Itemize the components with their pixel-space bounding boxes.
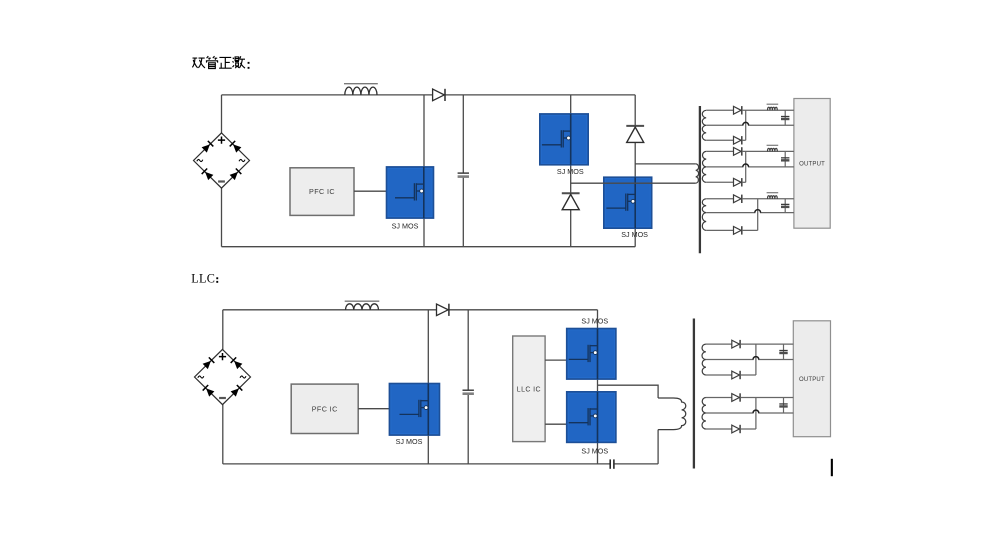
svg-text:SJ MOS: SJ MOS xyxy=(581,447,608,456)
wire LLC outB freewheel vertical xyxy=(755,398,757,430)
wire half-bridge vertical xyxy=(597,310,599,464)
filter inductor forward out1 L xyxy=(767,104,779,110)
wire forward out3 bottom lead xyxy=(706,229,733,231)
wire PFC MOSFET vertical (LLC) xyxy=(427,310,429,464)
resonant capacitor Cr xyxy=(610,459,614,468)
wire bridge bottom connector (LLC) xyxy=(222,404,224,464)
wire bridge top connector (LLC) xyxy=(222,310,224,350)
wire forward out1 top lead xyxy=(706,109,733,111)
wire LLC outB bottom lead xyxy=(706,428,732,430)
wire LLC outB top lead xyxy=(706,397,732,399)
IC box LLC IC xyxy=(513,336,545,442)
transformer T2 primary / resonant inductor winding xyxy=(658,398,686,430)
svg-text:PFC IC: PFC IC xyxy=(312,404,338,413)
MOSFET Q6 LLC low-side (SJ MOS) xyxy=(567,392,616,443)
diode LLC outB freewheel diode xyxy=(732,425,740,433)
wire bridge top connector xyxy=(221,95,223,133)
wire bridge bottom connector xyxy=(221,188,223,247)
winding forward out2 secondary xyxy=(702,151,706,182)
wire forward out1 freewheel vertical xyxy=(745,110,747,140)
inductor L1 (PFC boost) xyxy=(344,84,378,95)
svg-text:OUTPUT: OUTPUT xyxy=(799,377,825,383)
winding forward out1 secondary xyxy=(702,110,706,140)
wire LLC outB return (center tap) with hop xyxy=(706,410,793,413)
wire LLC outB rail after rectifier xyxy=(740,397,793,399)
svg-text:SJ MOS: SJ MOS xyxy=(392,222,419,231)
wire LLC outA top lead xyxy=(706,343,732,345)
winding LLC outA secondary xyxy=(702,344,706,375)
wire forward out3 freewheel connector xyxy=(742,229,758,231)
title 双管正激： (two-transistor forward) xyxy=(192,56,245,68)
filter inductor forward out3 L xyxy=(767,193,779,199)
transformer T1 core xyxy=(699,106,701,253)
wire forward out1 freewheel connector xyxy=(742,139,746,141)
wire LLC outA rail after rectifier xyxy=(740,343,793,345)
svg-text:LLC IC: LLC IC xyxy=(517,386,541,393)
winding forward out3 secondary xyxy=(702,199,706,231)
bulk capacitor C2 xyxy=(463,310,474,464)
svg-text:SJ MOS: SJ MOS xyxy=(557,167,584,176)
diode LLC outA freewheel diode xyxy=(732,371,740,379)
text cursor artifact xyxy=(831,459,833,476)
diode forward out1 rectifier xyxy=(734,106,742,114)
bridge rectifier BR2 xyxy=(195,349,251,404)
wire forward out3 return (center tap) with hop xyxy=(706,210,794,213)
wire LLC IC to high-side gate xyxy=(545,359,568,361)
MOSFET Q2 forward high-side (SJ MOS) xyxy=(540,114,588,165)
winding LLC outB secondary xyxy=(702,398,706,430)
svg-text:SJ MOS: SJ MOS xyxy=(621,230,648,239)
wire LLC outB freewheel connector xyxy=(740,428,756,430)
diode D4 (boost LLC) xyxy=(437,304,449,316)
diode D1 (boost) xyxy=(433,89,445,101)
wire forward out2 return (center tap) with hop xyxy=(706,164,794,167)
MOSFET Q4 PFC LLC (SJ MOS) xyxy=(389,384,439,436)
wire half-bridge midpoint to resonant tank xyxy=(598,385,659,398)
wire forward out1 return (center tap) with hop xyxy=(706,122,794,125)
wire primary top lead xyxy=(635,163,696,165)
wire LLC outA bottom lead xyxy=(706,374,732,376)
wire LLC outA freewheel vertical xyxy=(755,344,757,375)
wire forward out3 freewheel vertical xyxy=(757,199,759,231)
wire forward out2 top lead xyxy=(706,150,733,152)
inductor L2 (PFC boost) xyxy=(345,301,380,310)
filter inductor forward out2 L xyxy=(767,145,779,151)
output capacitor LLC outA C xyxy=(779,344,787,359)
wire LLC outA freewheel connector xyxy=(740,374,756,376)
bulk capacitor C1 xyxy=(458,95,469,247)
transformer T1 primary winding xyxy=(696,164,699,183)
wire top bus (LLC) xyxy=(223,309,598,311)
bridge rectifier BR1 xyxy=(194,133,250,188)
wire PFC MOSFET drain/source vertical xyxy=(423,95,425,247)
MOSFET Q5 LLC high-side (SJ MOS) xyxy=(567,329,616,380)
wire forward out2 freewheel connector xyxy=(742,181,746,183)
wire forward out2 rail after rectifier xyxy=(742,150,794,152)
output capacitor forward out3 C xyxy=(781,199,789,213)
diode forward out3 freewheel diode xyxy=(734,226,742,234)
diode forward out2 rectifier xyxy=(734,147,742,155)
diode forward out2 freewheel diode xyxy=(734,178,742,186)
diode forward out3 rectifier xyxy=(734,195,742,203)
svg-text:OUTPUT: OUTPUT xyxy=(799,162,825,168)
wire bottom bus (LLC) right of resonant cap xyxy=(615,463,659,465)
wire forward out3 rail after rectifier xyxy=(742,198,794,200)
wire bottom bus (forward) xyxy=(222,246,636,248)
output capacitor forward out1 C xyxy=(781,110,789,125)
output capacitor LLC outB C xyxy=(779,398,787,414)
wire forward right vertical xyxy=(634,95,636,247)
MOSFET Q1 PFC (SJ MOS) xyxy=(387,167,434,218)
wire primary bottom lead (crosses Q3) xyxy=(571,182,696,184)
svg-text:PFC IC: PFC IC xyxy=(309,187,335,196)
diode D2 (clamp upper) xyxy=(626,126,644,142)
wire bottom bus (LLC) left of resonant cap xyxy=(223,463,610,465)
wire forward out3 top lead xyxy=(706,198,733,200)
diode LLC outA rectifier xyxy=(732,340,740,348)
IC box OUTPUT (LLC) xyxy=(793,321,830,437)
wire forward out2 freewheel vertical xyxy=(745,151,747,182)
output capacitor forward out2 C xyxy=(781,151,789,167)
wire forward high-side vertical xyxy=(570,95,572,247)
wire forward out1 bottom lead xyxy=(706,139,733,141)
transformer T2 core xyxy=(693,319,695,469)
wire PFC gate xyxy=(354,190,387,192)
wire LLC outA return (center tap) with hop xyxy=(706,357,793,360)
svg-text:SJ MOS: SJ MOS xyxy=(396,437,423,446)
wire forward out1 rail after rectifier xyxy=(742,109,794,111)
diode LLC outB rectifier xyxy=(732,393,740,401)
wire PFC gate (LLC) xyxy=(358,408,389,410)
wire primary bottom to resonant cap xyxy=(657,430,659,464)
IC box PFC IC (LLC) xyxy=(291,384,358,433)
MOSFET Q3 forward low-side (SJ MOS) xyxy=(604,177,652,228)
IC box PFC IC (forward) xyxy=(290,168,354,216)
diode forward out1 freewheel diode xyxy=(734,136,742,144)
wire forward out2 bottom lead xyxy=(706,181,733,183)
IC box OUTPUT (forward) xyxy=(794,99,830,229)
wire LLC IC to low-side gate xyxy=(545,423,568,425)
svg-text:SJ MOS: SJ MOS xyxy=(581,317,608,326)
diode D3 (clamp lower) xyxy=(562,193,580,210)
svg-text:LLC: LLC xyxy=(191,272,215,286)
wire top bus (forward) xyxy=(222,94,636,96)
